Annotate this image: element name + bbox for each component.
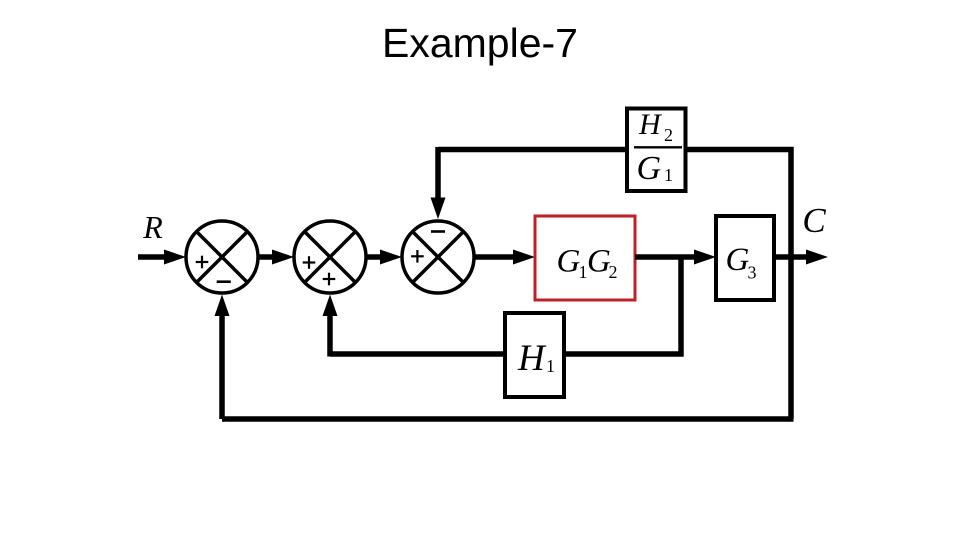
takeoff vertical wire at x=791 (to H2/G1 and outer loop) (788, 147, 794, 419)
block G1G2 (red) (535, 216, 635, 300)
S2 plus sign bottom (323, 273, 336, 286)
arrowhead into G1G2 (513, 250, 535, 265)
S3 minus sign top (431, 230, 445, 233)
wire takeoff to H1 right side (564, 351, 684, 357)
H2/G1 fraction label (634, 108, 682, 187)
S3 plus sign left (411, 250, 424, 263)
wire G1G2 to block G3 (635, 254, 700, 260)
summing junction S2 (294, 221, 366, 293)
wire S1 to S2 (258, 254, 278, 260)
block H1 (505, 313, 564, 397)
wire S3 to block G1G2 (474, 254, 517, 260)
wire H1 output to S2 (lower horizontal) (330, 351, 505, 357)
svg-text:G: G (726, 242, 750, 278)
arrowhead into S1 (164, 250, 186, 265)
output arrowhead (806, 250, 828, 265)
svg-text:G: G (557, 244, 581, 280)
svg-text:1: 1 (546, 356, 555, 376)
svg-text:R: R (142, 209, 163, 245)
arrowhead into S2 (272, 250, 294, 265)
svg-text:2: 2 (664, 125, 673, 145)
G1G2 label (557, 244, 618, 283)
wire S2 to S3 (366, 254, 386, 260)
svg-text:2: 2 (609, 262, 618, 282)
G3 label (726, 242, 757, 283)
arrowhead into S3 top (431, 198, 446, 220)
svg-text:3: 3 (748, 263, 757, 283)
svg-text:G: G (637, 150, 662, 187)
summing junction S1 (186, 221, 258, 293)
takeoff vertical wire at x=681 (to H1) (678, 257, 684, 357)
block G3 (716, 216, 774, 300)
svg-text:H: H (638, 108, 663, 141)
svg-text:H: H (517, 338, 547, 379)
wire input R to summer S1 (138, 254, 170, 260)
outer feedback left vertical wire (219, 311, 225, 419)
wire vertical down into S3 (435, 147, 441, 201)
wire H2/G1 output to summer S3 (top horizontal) (438, 147, 627, 153)
svg-text:G: G (587, 244, 611, 280)
S2 plus sign left (303, 256, 316, 269)
svg-text:Example-7: Example-7 (382, 20, 578, 66)
wire vertical up into S2 (327, 311, 333, 357)
summing junction S3 (402, 221, 474, 293)
svg-text:1: 1 (664, 165, 673, 185)
arrowhead into G3 (694, 250, 716, 265)
S1 plus sign (196, 256, 209, 269)
outer feedback bottom wire (222, 416, 794, 422)
svg-text:C: C (802, 201, 826, 240)
block H2/G1 (627, 109, 686, 192)
arrowhead into S1 bottom (215, 295, 230, 317)
H1 label (517, 338, 555, 379)
wire takeoff to H2/G1 block (top right horizontal) (685, 147, 794, 153)
arrowhead into S3 (380, 250, 402, 265)
S1 minus sign (217, 280, 231, 283)
wire G3 to output C (775, 254, 812, 260)
arrowhead into S2 bottom (323, 295, 338, 317)
